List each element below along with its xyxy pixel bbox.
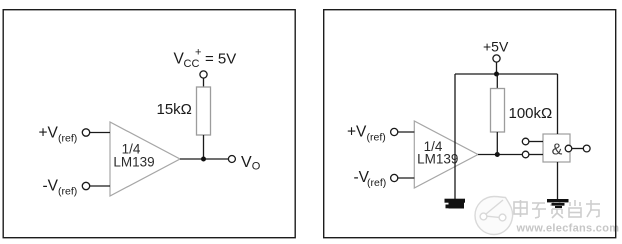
AND input terminal lower (522, 151, 529, 158)
resistor R1 15k (197, 87, 211, 135)
output terminal VO (228, 156, 235, 163)
wire AND output (572, 148, 584, 150)
node output junction (201, 157, 206, 162)
svg-text:(ref): (ref) (367, 177, 386, 189)
ground (below op-amp) (445, 199, 466, 209)
label -Vref (right) (354, 169, 387, 189)
svg-text:www.elecfans.com: www.elecfans.com (516, 223, 620, 235)
AND output bubble (565, 145, 572, 152)
input terminal +Vref (right) (391, 128, 398, 135)
wire comparator output (478, 154, 522, 156)
op-amp U1 1/4 LM139 (110, 122, 180, 196)
wire supply rail (455, 73, 558, 75)
wire rail right drop to AND gate (557, 74, 559, 134)
svg-text:O: O (252, 161, 261, 173)
supply terminal VCC (200, 71, 207, 78)
AND output terminal (583, 145, 590, 152)
wire +Vref input (90, 132, 110, 134)
wire rail to resistor (496, 74, 498, 89)
ground (below AND gate) (547, 199, 569, 208)
svg-text:CC: CC (184, 58, 200, 70)
label +Vref (right) (347, 124, 386, 144)
resistor R2 100k (491, 89, 505, 133)
AND gate U3 (543, 134, 570, 162)
input terminal -Vref (82, 182, 89, 189)
supply terminal +5V (493, 55, 500, 62)
wire AND lower stub (529, 154, 543, 156)
wire -Vref input (90, 185, 110, 187)
svg-text:LM139: LM139 (113, 155, 154, 170)
svg-text:= 5V: = 5V (205, 51, 236, 68)
svg-text:15kΩ: 15kΩ (157, 101, 192, 118)
watermark text 电子发烧友 (514, 200, 600, 218)
svg-text:(ref): (ref) (367, 132, 386, 144)
wire AND gate to ground (557, 162, 559, 200)
input terminal +Vref (82, 129, 89, 136)
svg-text:V: V (241, 154, 252, 171)
svg-text:+: + (195, 47, 201, 59)
wire +5V to rail (496, 62, 498, 74)
svg-text:&: & (552, 142, 563, 159)
label VO (241, 154, 261, 173)
op-amp U2 1/4 LM139 (414, 121, 478, 188)
label +Vref (39, 125, 78, 145)
wire resistor to output node (203, 135, 205, 159)
svg-text:+5V: +5V (483, 39, 509, 55)
input terminal -Vref (right) (391, 174, 398, 181)
AND input terminal upper (522, 138, 529, 145)
wire resistor to output node (right) (496, 132, 498, 155)
svg-text:LM139: LM139 (417, 152, 458, 167)
svg-text:+V: +V (39, 125, 59, 142)
wire AND upper stub (529, 141, 543, 143)
node output junction (right) (495, 152, 500, 157)
svg-text:+V: +V (347, 124, 367, 141)
svg-text:(ref): (ref) (58, 133, 77, 145)
svg-text:-V: -V (43, 178, 59, 195)
svg-text:100kΩ: 100kΩ (509, 105, 553, 122)
wire output (180, 158, 228, 160)
label -Vref (43, 178, 78, 198)
wire rail left drop to ground (454, 74, 456, 199)
watermark logo (475, 197, 513, 235)
wire -Vref input (right) (398, 177, 415, 179)
svg-text:(ref): (ref) (58, 186, 77, 198)
node rail junction (494, 72, 499, 77)
wire +Vref input (right) (398, 131, 415, 133)
label VCC+ = 5V (174, 47, 237, 71)
wire VCC to resistor (203, 78, 205, 87)
